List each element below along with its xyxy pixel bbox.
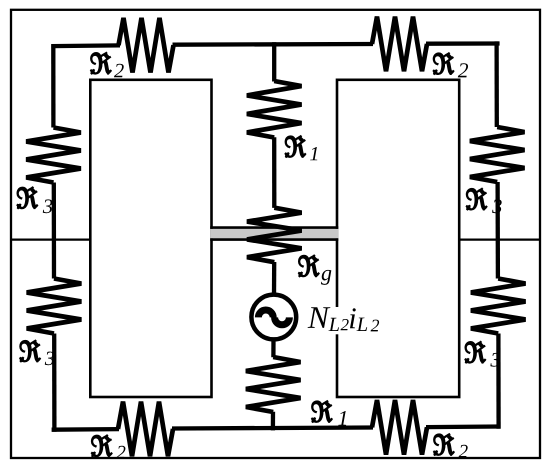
label R3 upper-left (17, 187, 52, 213)
air gap gray bar (210, 229, 338, 239)
label R2 top-left (91, 53, 124, 78)
wire top-centre segment (173, 42, 374, 47)
label R2 top-right (433, 53, 468, 77)
resistor Rg (air-gap reluctance) (247, 208, 302, 263)
label R3 lower-left (20, 340, 54, 365)
label R2 bottom-right (434, 434, 468, 457)
wire bottom-right segment (426, 424, 500, 429)
resistor R3 lower-left (27, 279, 82, 334)
mid-plane line right (459, 238, 541, 240)
wire bottom-centre segment (172, 428, 373, 429)
label N_L2 i_L2 (308, 307, 331, 328)
wire centre lower-middle segment (272, 262, 277, 297)
wire left lower segment (52, 334, 57, 432)
label R3 upper-right (467, 189, 502, 214)
core left window (90, 80, 211, 397)
air gap top edge (210, 226, 338, 229)
wire centre upper-middle segment (272, 137, 276, 208)
sine symbol inside source (258, 310, 289, 325)
label Rg (299, 255, 332, 285)
label R1 top (285, 136, 317, 160)
label R3 lower-right (465, 342, 500, 367)
wire left middle segment (52, 183, 57, 279)
resistor R2 top-right (372, 17, 427, 72)
resistor R1 bottom (246, 357, 301, 412)
wire centre top (node at top wire) (272, 42, 276, 81)
resistor R2 bottom-left (118, 402, 173, 457)
wire top-right segment (426, 41, 500, 46)
air gap bottom edge (210, 238, 338, 241)
wire right upper segment (494, 41, 498, 127)
wire top-left segment (51, 43, 120, 48)
resistor R2 bottom-right (372, 400, 427, 455)
resistor R3 lower-right (471, 279, 526, 334)
label R1 bottom (312, 401, 346, 426)
resistor R3 upper-left (26, 128, 81, 183)
wire bottom-left segment (52, 427, 119, 432)
core right window (337, 80, 459, 397)
mid-plane line left (10, 238, 90, 240)
wire below source (271, 338, 275, 358)
MMF source circle (251, 295, 296, 340)
label R2 bottom-left (92, 435, 126, 458)
wire centre bottom (node at bottom wire) (271, 412, 275, 431)
wire right middle segment (495, 182, 500, 279)
resistor R3 upper-right (470, 127, 525, 182)
wire left upper segment (51, 44, 55, 127)
knockout of box edge behind source label (334, 307, 340, 334)
wire right lower segment (496, 334, 501, 429)
resistor R2 top-left (119, 18, 174, 73)
resistor R1 top (247, 81, 302, 138)
